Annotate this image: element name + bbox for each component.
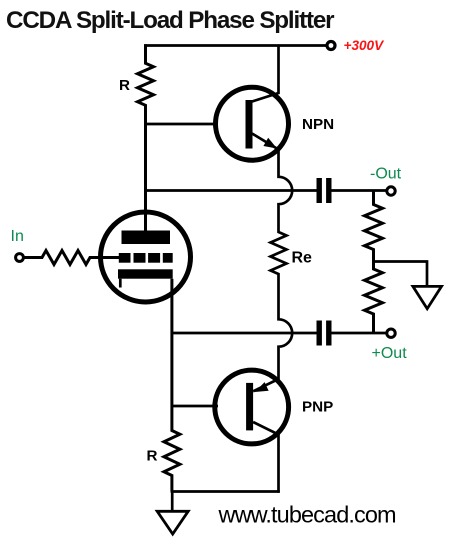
svg-text:In: In xyxy=(11,228,24,245)
svg-text:PNP: PNP xyxy=(302,399,333,416)
svg-text:www.tubecad.com: www.tubecad.com xyxy=(218,502,397,528)
svg-text:Re: Re xyxy=(292,249,313,266)
svg-text:CCDA Split-Load Phase Splitter: CCDA Split-Load Phase Splitter xyxy=(6,7,335,34)
svg-text:R: R xyxy=(119,77,130,94)
svg-text:-Out: -Out xyxy=(370,166,402,183)
svg-text:NPN: NPN xyxy=(302,116,334,133)
svg-text:+Out: +Out xyxy=(372,345,408,362)
svg-text:R: R xyxy=(147,448,158,465)
svg-text:+300V: +300V xyxy=(344,38,386,53)
